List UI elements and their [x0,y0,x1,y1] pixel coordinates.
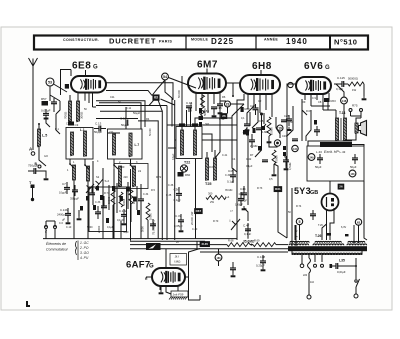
wire mid risers [140,184,142,199]
6H8 extra caps [256,127,262,129]
wire left frame 2 [56,101,60,114]
resistor cluster c [129,190,133,204]
svg-text:1.MΩ: 1.MΩ [262,131,268,134]
top tick marks [85,70,87,76]
transformer T16 secondary mid [313,244,316,245]
wire 6V6 pins [304,93,306,100]
svg-text:6V6: 6V6 [304,61,323,72]
wire 5Y3 plate leads [326,210,328,240]
node 63 [153,95,159,101]
resistor R57 [42,101,49,106]
svg-text:PU: PU [45,229,48,233]
svg-text:C8: C8 [318,100,322,104]
svg-text:50µµF: 50µµF [121,123,129,127]
svg-text:Commutateur: Commutateur [46,248,69,252]
wire 183 drop [218,249,220,255]
svg-text:C36: C36 [174,188,180,192]
svg-text:R.71: R.71 [104,192,110,195]
svg-text:148: 148 [342,99,347,103]
wire top long [93,106,97,108]
svg-text:300: 300 [208,192,213,196]
svg-text:R.74: R.74 [296,205,302,208]
svg-text:C2: C2 [258,99,262,103]
svg-text:20.000 .2W: 20.000 .2W [190,211,194,225]
svg-text:1W: 1W [352,88,357,92]
capacitor C15 [211,106,217,108]
box 26b [338,184,344,189]
svg-text:0,25µF: 0,25µF [256,264,265,268]
6AF7 wires [146,276,152,278]
node 63b [355,219,361,225]
wire grid cap 6E8 [54,84,68,92]
wire speaker leads [351,116,362,118]
coil L5 [37,129,40,146]
svg-text:MODELE: MODELE [191,38,208,42]
svg-text:134: 134 [293,148,298,151]
wire left drops to bus [73,180,75,239]
resistor R58 [199,108,202,114]
tube 6AF7G [152,268,185,286]
svg-text:I.MΩ: I.MΩ [174,260,181,264]
svg-text:C.13: C.13 [95,122,102,126]
mains terminal 2 [314,264,317,267]
6H8 extra verts [249,112,251,126]
svg-text:L.1: L.1 [80,128,85,132]
svg-text:PARIS: PARIS [159,40,172,44]
wire 6M7 to 6H8 top [226,82,240,84]
transformer T16 primary [292,253,295,254]
blob under coil [68,122,74,126]
coil L7 [129,133,132,156]
svg-text:L.43: L.43 [316,150,322,154]
svg-text:50µµF: 50µµF [94,130,102,134]
svg-text:C.132: C.132 [119,209,127,213]
svg-text:10µµF: 10µµF [59,191,67,195]
svg-text:S2: S2 [96,175,100,179]
svg-text:6H8: 6H8 [252,61,272,72]
wire 6M7 top cap [206,69,208,74]
wire field coil leads [308,141,352,146]
svg-text:C.40: C.40 [192,228,198,231]
ground cluster [78,216,80,218]
svg-text:0,0IµF: 0,0IµF [337,270,346,274]
svg-text:0,5MΩ: 0,5MΩ [289,162,292,170]
box 26a [221,114,227,119]
coil L3 [86,166,89,181]
resistor R63 [324,98,330,102]
coil 700ohm [68,101,71,121]
svg-text:R.73: R.73 [257,187,263,190]
svg-text:T.26: T.26 [315,234,322,238]
diag 6H8 a [232,104,244,118]
svg-text:C.10: C.10 [66,226,72,229]
tube 5Y3GB [322,194,339,211]
tube 6H8 [240,75,280,94]
wire T22 to 6H8 [195,118,232,168]
svg-text:S.2: S.2 [105,179,110,183]
wire AVC long [167,124,237,126]
svg-text:µF: µF [62,218,65,222]
svg-text:50µµF: 50µµF [133,112,141,115]
coil L1 [83,131,86,156]
svg-text:R.69: R.69 [254,239,260,243]
bottom bus 5 [200,251,288,253]
resistor cluster b [119,192,123,207]
svg-text:R9: R9 [302,100,306,104]
svg-text:×: × [296,235,298,239]
wire 6V6 grid riser [287,84,289,96]
svg-text:C4: C4 [232,157,236,161]
svg-text:100µF: 100µF [235,203,243,207]
svg-text:0,1µF: 0,1µF [174,198,181,202]
title divider 1 [185,36,187,50]
svg-text:54: 54 [163,75,167,79]
svg-text:6AF7: 6AF7 [126,260,150,271]
wire bottom risers [196,241,198,249]
wire 6H8 top [227,107,229,114]
wire chain ends [250,244,253,246]
svg-text:C46: C46 [239,192,245,196]
svg-text:R.45: R.45 [202,242,209,246]
capacitor 50uF b [352,157,358,159]
wire bottom bus 4 [130,248,288,250]
cluster extra caps [95,211,101,213]
svg-text:0,05µF: 0,05µF [174,224,183,228]
wire fan from 63 [149,100,154,106]
6M7 screen caps [217,103,223,105]
svg-text:25.MΩ: 25.MΩ [250,145,258,148]
lamp circle [180,165,187,172]
riser 248 detail [244,208,248,221]
6AF7 link to bus [165,249,167,253]
terminal PU2 [54,226,57,229]
tube 6E8G [71,76,106,93]
svg-text:50.000: 50.000 [149,128,152,136]
wire T25 top [206,152,208,158]
svg-text:75000: 75000 [275,155,279,163]
svg-text:0,1µF: 0,1µF [246,165,253,168]
wire R31 drop [278,192,287,238]
capacitor C25 [51,101,57,103]
wire ant caps [42,171,46,176]
wire bottom bus 2 [130,240,205,242]
svg-text:0,5: 0,5 [269,178,273,181]
svg-text:1. GC: 1. GC [80,241,89,245]
svg-text:10000: 10000 [270,127,274,135]
wire bottom bus 3 [130,244,227,246]
svg-text:300: 300 [205,123,210,126]
svg-text:220: 220 [303,274,308,277]
svg-text:300Ω: 300Ω [80,111,84,119]
box bottom center [200,242,210,247]
svg-text:L.43: L.43 [340,150,346,154]
wire 6H8 pins [247,94,249,109]
resistor R62 [241,107,244,112]
svg-text:50µF: 50µF [350,165,357,169]
wire 6M7 T22 links [186,110,188,127]
wire L5 [38,124,40,129]
title divider 2 [255,36,257,50]
T14 core [340,118,342,140]
switch blade [355,273,357,279]
coil Ch2 [112,134,115,155]
extra hline 160 [108,132,121,134]
transformer T16 secondary left [289,244,292,245]
svg-text:183: 183 [217,257,222,260]
wires osc cluster extra [108,185,110,210]
pu link [45,221,47,227]
coil 300ohm [76,101,79,121]
svg-text:R.67: R.67 [306,110,312,113]
mains terminal 3 [321,264,324,267]
svg-text:26: 26 [339,185,343,189]
svg-text:3. GO: 3. GO [80,251,89,255]
svg-text:C.115: C.115 [337,76,345,80]
svg-text:C.41: C.41 [222,154,228,157]
hatch under 1nk [169,297,171,300]
extra caps right [281,119,287,121]
svg-text:35.MΩ: 35.MΩ [225,189,233,192]
resistor cluster a [111,190,115,205]
svg-text:R.61: R.61 [209,166,215,169]
svg-text:63: 63 [357,220,361,224]
blob 6M7 [199,116,204,120]
svg-text:C.30: C.30 [225,174,231,177]
switch contact S1d [131,159,135,169]
svg-text:C27: C27 [284,114,289,118]
node 183 [215,254,222,261]
wire 6AF7 top [165,264,167,268]
svg-text:5Y3: 5Y3 [294,186,311,196]
wire 6E8 to 63 [106,91,152,96]
coil T22 secondary [193,130,196,155]
svg-text:1nk F59: 1nk F59 [173,293,184,297]
6V6 col wires [301,110,303,141]
wire switch up [355,258,357,266]
wire 6M7 pins [195,93,197,111]
legend brace [76,241,77,255]
wires 6H8 lower [255,114,262,157]
tube 6V6G [296,77,331,94]
caps osc extra [138,198,144,200]
svg-text:R4: R4 [146,117,150,121]
wire right vertical 287 [286,96,288,238]
extra grounds [268,139,270,141]
arrow box [146,243,161,250]
svg-text:2400µF: 2400µF [57,213,67,217]
coil box L1 frame [66,128,93,160]
wire trans risers [294,225,296,240]
vert 232 [232,118,237,172]
node 249 [308,154,315,161]
svg-text:C.6: C.6 [59,222,64,225]
svg-text:50000: 50000 [203,108,207,116]
svg-text:R60: R60 [185,173,191,177]
fuse wavy [308,258,311,273]
cluster extra right [146,203,150,220]
wire left col drop [46,117,50,127]
svg-text:6E8: 6E8 [72,61,91,72]
coil L2 [72,165,75,180]
svg-text:0,1µF: 0,1µF [107,226,114,229]
transformer T25 coils [205,158,208,180]
svg-text:GB: GB [310,190,318,196]
wire bus bundle [96,101,145,127]
resistor chain bottom a [227,243,250,247]
svg-text:C.33: C.33 [95,201,101,204]
resistor 50000 vertical [201,95,205,116]
coil box small [114,164,148,189]
wire mains plug [308,273,310,295]
IF transformer T22 frame [176,127,202,159]
title block frame [34,36,368,50]
bus left end [54,232,56,239]
wire bundle corners [166,106,168,241]
svg-text:6,3V: 6,3V [341,226,346,229]
capacitor C5 [43,113,49,115]
transformer T16 secondary right [347,244,350,245]
svg-text:L.7: L.7 [135,143,140,147]
extra diag top [152,80,165,96]
wire T22 secondary down [195,159,197,239]
svg-text:2. PO: 2. PO [79,246,89,250]
wire 6V6 left pin [289,83,297,85]
svg-text:R.65: R.65 [258,120,264,123]
wire 6E8 out [106,83,173,100]
wire T16 primary ends [291,251,293,255]
svg-text:G: G [93,65,98,71]
6H8 extra diag [243,128,247,133]
cluster box frame [89,187,127,232]
box R31 [274,187,282,192]
antenna [29,58,34,66]
svg-text:I: I [230,219,231,223]
node 148a [341,97,348,104]
svg-text:63: 63 [154,96,158,100]
svg-text:C15: C15 [217,106,223,110]
ground 6AF7 [160,286,162,290]
wire 6E8 frame [61,70,72,96]
svg-text:0,1: 0,1 [241,117,245,120]
svg-text:D225: D225 [211,37,234,46]
wire B+ to field coil [327,102,329,110]
resistor R66 [272,150,276,164]
title divider 3 [329,36,331,50]
vert 220 to T25 [215,112,220,158]
capacitor bottom a [230,267,236,269]
capacitor C28 [286,118,292,120]
speaker [359,121,367,136]
svg-text:GO: GO [44,155,48,158]
diag 6H8 b [247,106,254,120]
small caps 6H8 [244,123,250,125]
box R60 [178,172,184,177]
wire AVC 2 [96,118,138,120]
node 54 [162,73,169,80]
wire 54 to 6M7 [168,78,196,89]
blobs osc extra [112,186,115,191]
svg-text:220: 220 [120,165,125,169]
svg-text:0,1µF: 0,1µF [172,153,175,160]
svg-text:C.35: C.35 [166,194,172,197]
svg-text:C.14: C.14 [186,101,193,105]
speaker voice coil [355,123,358,133]
svg-text:R.72: R.72 [156,176,162,179]
svg-text:50µF: 50µF [315,165,322,169]
svg-text:50.000: 50.000 [177,90,181,98]
svg-text:C7: C7 [62,182,66,186]
terminal PU1 [45,226,48,229]
svg-text:2W: 2W [210,200,214,204]
svg-text:249: 249 [310,156,315,159]
switch contact S1c [114,159,118,169]
wire 6M7 grid from T21 [171,98,173,127]
svg-text:R.70: R.70 [213,220,219,223]
output transformer T14 secondary [343,118,346,140]
svg-text:350µµF: 350µµF [70,197,79,201]
capacitor 50uF a [317,157,323,159]
extra vert 293 [287,106,293,136]
svg-text:C.36: C.36 [168,184,174,187]
wire C135 to switch [343,266,356,273]
svg-text:L.5: L.5 [42,134,47,138]
resistor 50000 1W [348,82,364,86]
node 19 [277,125,283,131]
coil T22 primary [180,130,183,155]
wire power box risers [291,188,293,246]
6H8 low parts [283,152,286,156]
svg-text:R.5: R.5 [151,189,156,192]
svg-text:L35: L35 [339,259,345,263]
wire 6V6 plate [334,83,336,85]
svg-text:T22: T22 [184,161,190,165]
coil Ch1 [70,132,73,155]
junction dot 6H8 [260,113,263,116]
svg-text:C.47: C.47 [243,224,250,228]
node 148b [349,170,356,177]
svg-text:23: 23 [226,102,230,106]
switch arrow S2 [95,179,103,189]
svg-text:10000: 10000 [150,212,153,220]
svg-text:C.42: C.42 [246,158,252,161]
svg-text:C29: C29 [282,135,287,138]
wire mains drops [301,255,303,264]
svg-text:R31: R31 [275,187,281,191]
wire box right drop [364,181,367,240]
svg-text:ANNÉE: ANNÉE [264,37,278,42]
wire 6M7 right [226,83,233,96]
resistor 200ohm 2W [206,196,226,200]
coil box L6 frame [108,129,143,159]
power box frame [307,146,364,181]
wire bottom bus 1 [43,238,237,240]
hp top wires [336,84,344,97]
wire pu to bus [39,152,46,166]
legend rule [77,241,79,261]
switch contact S1a [70,159,74,168]
svg-text:G: G [149,264,154,270]
transformer T16 core [288,246,367,251]
svg-text:R63: R63 [331,99,337,103]
svg-text:Excit. HP: Excit. HP [324,150,339,154]
svg-text:1940: 1940 [286,37,308,46]
wire 5Y3 to box [329,181,331,194]
trimmer caps T22 [179,123,185,125]
diag S2b [86,184,94,193]
svg-text:C.11: C.11 [126,107,132,110]
tube 6M7 [188,74,226,94]
svg-text:C3: C3 [75,123,79,127]
